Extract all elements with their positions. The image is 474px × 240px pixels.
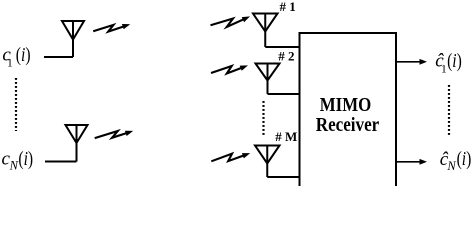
svg-text:Receiver: Receiver [316, 115, 380, 136]
antenna RX1 [253, 14, 278, 48]
svg-text:(i): (i) [447, 49, 462, 71]
wire RX2 [268, 93, 300, 95]
antenna TX2 [66, 125, 88, 162]
svg-text:1: 1 [7, 57, 13, 69]
svg-text:N: N [9, 158, 19, 172]
output arrow 2 [397, 161, 422, 163]
output arrow 1 [397, 61, 422, 63]
antenna TX1 [62, 21, 84, 57]
svg-text:# 1: # 1 [280, 0, 296, 14]
wave arrow RXM [211, 154, 244, 162]
wire TX2 [45, 161, 77, 163]
svg-text:(i): (i) [457, 147, 472, 169]
dotted line middle [262, 101, 264, 136]
wave arrow TX1 [93, 25, 125, 32]
svg-text:1: 1 [441, 63, 447, 75]
svg-text:MIMO: MIMO [320, 95, 372, 116]
dotted line left [15, 78, 17, 131]
svg-text:# M: # M [275, 129, 297, 144]
svg-text:(i): (i) [16, 43, 31, 65]
antenna RX2 [256, 64, 280, 95]
svg-text:(i): (i) [18, 147, 33, 169]
wire TX1 [44, 56, 73, 58]
wave arrow RX2 [211, 66, 243, 74]
dotted line right [448, 85, 450, 137]
MIMO receiver box [300, 33, 397, 187]
svg-text:# 2: # 2 [278, 49, 294, 64]
wave arrow TX2 [95, 131, 128, 138]
svg-text:N: N [446, 159, 456, 173]
wave arrow RX1 [211, 19, 245, 28]
wire RXM [267, 176, 299, 178]
antenna RXM [255, 146, 280, 178]
wire RX1 [265, 46, 299, 48]
